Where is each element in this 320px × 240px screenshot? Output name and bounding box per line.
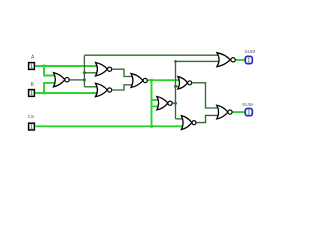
wire G4 output to G6 top input bbox=[147, 79, 181, 81]
node G1out join bbox=[83, 78, 86, 81]
input pin Cin bbox=[29, 123, 35, 130]
wire G8 output to pin SUM bbox=[235, 59, 244, 61]
wire G6 output to G9 top input bbox=[192, 83, 221, 108]
NOR gate G8 bbox=[217, 53, 235, 67]
wire G5out to G7 top input bbox=[176, 118, 186, 120]
wire G1 output to vertical bus bbox=[69, 79, 84, 81]
NOR gate G3 bbox=[96, 83, 112, 96]
wire G1out to G3 top input bbox=[84, 86, 99, 88]
output pin SUM2 bbox=[245, 109, 252, 116]
wire stub G5 bottom input bbox=[152, 105, 161, 107]
wire G4 output branch down to G5 top input bbox=[151, 80, 153, 106]
node A branch bbox=[42, 64, 45, 67]
node G5out corner bbox=[174, 60, 177, 63]
node G1out to G2 bbox=[83, 71, 86, 74]
input pin A bbox=[29, 63, 35, 70]
svg-text:Cin: Cin bbox=[28, 114, 35, 119]
NOR gate G4 bbox=[131, 73, 147, 87]
NOR gate G2 bbox=[96, 62, 112, 75]
svg-text:SUM: SUM bbox=[244, 49, 255, 55]
wire Cin horizontal to gate G7 bbox=[36, 125, 186, 127]
wire G5out run to G8 bottom input bbox=[176, 60, 221, 62]
wire G5out vertical bus bbox=[175, 61, 177, 119]
wire G1out vertical bus bbox=[83, 55, 85, 87]
NOR gate G6 bbox=[178, 77, 192, 89]
wire G1out to G2 bottom input bbox=[84, 72, 99, 74]
input pin B bbox=[29, 90, 35, 97]
wire A branch down to G1 top input bbox=[44, 66, 58, 76]
wire stub G5 top input bbox=[152, 99, 161, 101]
wire A horizontal to gate G2 bbox=[35, 65, 99, 67]
node B branch bbox=[42, 91, 45, 94]
wire G2 output to G4 top input bbox=[112, 69, 135, 76]
wire G5 output to vertical bus bbox=[172, 102, 175, 104]
node G5out join bbox=[174, 102, 177, 105]
wire B branch up to G1 bottom input bbox=[44, 83, 58, 93]
wire B horizontal to gate G3 bbox=[35, 92, 99, 94]
wire G3 output to G4 bottom input bbox=[112, 85, 135, 90]
wire G5out to G6 bottom input bbox=[176, 85, 182, 87]
NOR gate G5 bbox=[157, 96, 172, 109]
node G5out to G6 bbox=[174, 85, 177, 88]
svg-text:SUM: SUM bbox=[242, 102, 253, 108]
wire G9 output to pin SUM2 bbox=[232, 111, 245, 113]
wire G1out top run to G8 top input bbox=[84, 54, 220, 56]
wire Cin branch up to G5 bottom input bbox=[151, 106, 153, 126]
NOR gate G9 bbox=[217, 105, 232, 119]
node Cin branch bbox=[150, 125, 153, 128]
node G4out branch bbox=[150, 79, 153, 82]
NOR gate G7 bbox=[181, 116, 196, 130]
wire G7 output to G9 bottom input bbox=[196, 115, 220, 122]
NOR gate G1 bbox=[54, 73, 70, 87]
output pin SUM bbox=[245, 56, 252, 63]
